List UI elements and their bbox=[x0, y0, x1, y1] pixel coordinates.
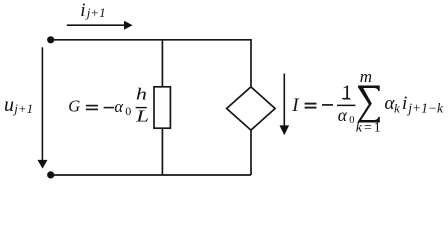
svg-text:k: k bbox=[394, 101, 400, 116]
svg-text:u: u bbox=[4, 94, 14, 116]
svg-text:1: 1 bbox=[342, 80, 353, 104]
svg-text:i: i bbox=[80, 0, 85, 21]
wire bottom (bottom-right corner to node B) bbox=[51, 174, 251, 176]
svg-text:L: L bbox=[135, 107, 149, 126]
wire middle branch bottom bbox=[161, 128, 163, 175]
label G = -a0*h/L bbox=[68, 85, 149, 126]
svg-text:i: i bbox=[402, 93, 407, 114]
svg-text:m: m bbox=[360, 67, 372, 86]
svg-text:α: α bbox=[338, 105, 348, 125]
svg-text:k=1: k=1 bbox=[356, 121, 383, 136]
svg-text:0: 0 bbox=[125, 104, 131, 118]
svg-text:j+1: j+1 bbox=[12, 101, 33, 116]
wire middle branch top bbox=[161, 40, 163, 87]
node A (top-left terminal dot) bbox=[47, 36, 54, 43]
svg-text:0: 0 bbox=[349, 115, 354, 126]
controlled current source (diamond) bbox=[227, 87, 276, 130]
wire right branch bottom bbox=[250, 130, 252, 175]
svg-text:h: h bbox=[136, 85, 147, 104]
svg-text:j+1−k: j+1−k bbox=[406, 101, 444, 116]
summation sigma bbox=[358, 86, 380, 123]
voltage arrow u_{j+1} (downward, left side) bbox=[38, 47, 48, 168]
svg-text:j+1: j+1 bbox=[85, 5, 106, 20]
node B (bottom-left terminal dot) bbox=[47, 171, 54, 178]
current arrow i_{j+1} (rightward, top) bbox=[67, 21, 133, 30]
label I = -(1/a0) sum_{k=1}^{m} a_k i_{j+1-k} bbox=[291, 67, 444, 136]
current arrow I (downward, right of diamond) bbox=[280, 74, 290, 136]
svg-text:G: G bbox=[68, 97, 80, 116]
resistor G bbox=[154, 87, 170, 128]
wire top (node A to top-right corner, down to source) bbox=[51, 40, 251, 87]
svg-text:α: α bbox=[114, 97, 123, 116]
